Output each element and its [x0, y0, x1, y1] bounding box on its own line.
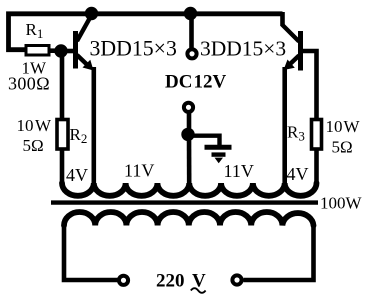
wire: Q2 emitter down to 11V/4V tap	[282, 67, 287, 184]
wire: rail right corner elbow to Q2 collector	[280, 12, 285, 26]
svg-text:11V: 11V	[124, 161, 154, 181]
transistor Q2 (right 3DD15)	[282, 25, 301, 71]
label R1	[26, 20, 44, 41]
wire: Q1 emitter down to 4V/11V tap	[92, 67, 97, 184]
wire: secondary left lead to output terminal	[64, 225, 118, 280]
wire: R2 lead from base node down	[60, 51, 65, 120]
AC tilde under V	[191, 288, 206, 293]
svg-text:4V: 4V	[287, 164, 309, 184]
resistor R1	[26, 46, 49, 56]
wire: top supply rail with left drop to R1	[9, 14, 283, 50]
transformer T1 primary winding (8 loops)	[62, 183, 317, 196]
wire: R3 to transformer right end	[314, 149, 319, 184]
wire: DC- terminal down to center-tap node	[187, 113, 192, 130]
label 10W left	[17, 116, 53, 135]
label 5Ω right	[332, 138, 353, 157]
svg-text:220V: 220V	[156, 271, 206, 292]
wire: Q2 base lead right and down to R3	[301, 51, 317, 120]
label 220 V	[156, 271, 206, 292]
terminal: DC supply + (open circle)	[187, 49, 196, 58]
node: left base junction	[54, 44, 67, 57]
wire: base lead Q1	[61, 49, 74, 54]
label 5Ω left	[23, 136, 44, 155]
transformer core	[51, 200, 318, 204]
svg-text:100W: 100W	[320, 194, 363, 213]
svg-text:R2: R2	[70, 125, 88, 146]
label 4V left tap	[66, 165, 88, 185]
wire: rail stub down to DC+ terminal	[189, 14, 194, 49]
label 11V left winding	[124, 161, 154, 181]
wire: center-tap node down to winding center tap	[187, 134, 192, 184]
label 11V right winding	[224, 161, 254, 181]
label 4V right tap	[287, 164, 309, 184]
transformer T1 secondary winding (8 loops)	[64, 212, 314, 226]
wire: R2 to transformer left end	[60, 149, 65, 184]
node: center-tap junction	[181, 128, 194, 141]
node: rail junction to DC+ terminal	[184, 7, 197, 20]
terminal: 220V output right (open circle)	[232, 275, 241, 284]
svg-text:R3: R3	[287, 123, 305, 144]
svg-text:300Ω: 300Ω	[8, 74, 50, 94]
svg-text:3DD15×3: 3DD15×3	[200, 37, 286, 61]
wire: R1 to base node	[49, 48, 61, 53]
label R2	[70, 125, 88, 146]
wire: ground stub	[189, 136, 220, 146]
terminal: DC supply - (open circle)	[184, 103, 193, 112]
label 100W	[320, 194, 363, 213]
label DC12V	[165, 72, 226, 93]
label 1W	[22, 59, 48, 78]
svg-text:5Ω: 5Ω	[332, 138, 353, 157]
node: rail junction at Q1 collector	[85, 7, 98, 20]
label 3DD15×3 left	[90, 37, 177, 61]
svg-text:R1: R1	[26, 20, 44, 41]
svg-text:11V: 11V	[224, 161, 254, 181]
label 300Ω	[8, 74, 50, 94]
label 10W right	[326, 117, 361, 136]
svg-text:DC12V: DC12V	[165, 72, 226, 93]
svg-text:3DD15×3: 3DD15×3	[90, 37, 177, 61]
resistor R3	[312, 120, 322, 150]
svg-text:10W: 10W	[17, 116, 53, 135]
svg-text:10W: 10W	[326, 117, 361, 136]
resistor R2	[57, 120, 68, 150]
svg-text:4V: 4V	[66, 165, 88, 185]
terminal: 220V output left (open circle)	[119, 276, 128, 285]
label 3DD15×3 right	[200, 37, 286, 61]
label R3	[287, 123, 305, 144]
svg-text:5Ω: 5Ω	[23, 136, 44, 155]
ground	[205, 147, 232, 163]
wire: right output terminal to secondary right lead	[244, 225, 314, 280]
transistor Q1 (left 3DD15)	[76, 15, 94, 71]
